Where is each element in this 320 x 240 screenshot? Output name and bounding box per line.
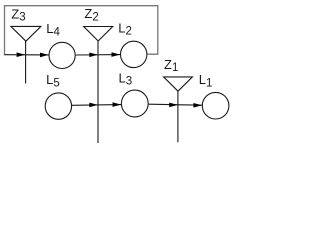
antenna Z1 (164, 77, 193, 142)
antenna Z2 (84, 27, 113, 144)
arrow row2 into L1 (193, 103, 202, 108)
arrow row1 into L2 (112, 52, 121, 57)
antenna Z3 (11, 26, 41, 83)
arrow row2 into L3 (113, 102, 122, 107)
arrow row1 into node Z2 line (89, 53, 98, 58)
node L4 (49, 42, 75, 68)
arrow row1 into L4 (40, 53, 49, 58)
wire row2 segment L5 to L3 (72, 104, 121, 107)
node L5 (45, 93, 71, 119)
arrow row2 into node Z1 line (169, 103, 178, 108)
arrow row1 into node Z3 line (17, 52, 26, 57)
node L2 (121, 41, 147, 67)
wire row1 segment frame to L4 (4, 54, 48, 56)
wire feedback frame (gray loop from node L2 back to input) (5, 6, 158, 55)
wire row2 segment L3 to L1 (149, 104, 202, 105)
node L3 (121, 90, 148, 117)
arrow row2 into node Z2 line (89, 103, 98, 108)
node L1 (202, 92, 229, 119)
wire row1 segment L4 to L2 (76, 54, 120, 56)
